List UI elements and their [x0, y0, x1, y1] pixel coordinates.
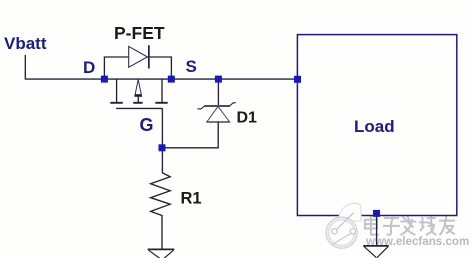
svg-text:Load: Load: [354, 117, 395, 136]
svg-text:G: G: [140, 115, 154, 135]
svg-text:Vbatt: Vbatt: [4, 34, 47, 53]
svg-text:R1: R1: [181, 190, 202, 208]
svg-text:D: D: [83, 58, 95, 77]
svg-text:P-FET: P-FET: [114, 23, 165, 43]
svg-text:S: S: [186, 57, 197, 76]
svg-text:D1: D1: [237, 110, 258, 127]
